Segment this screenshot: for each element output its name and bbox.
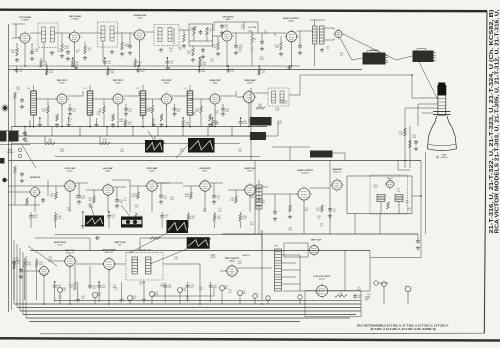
node left edge jack [2,178,6,182]
svg-text:56K: 56K [218,210,222,212]
resistor R18 [280,42,283,50]
svg-text:INTERLOCK: INTERLOCK [378,283,389,285]
svg-text:68K: 68K [202,71,206,73]
svg-text:47: 47 [69,121,71,123]
wire AGC bus [12,143,240,145]
resistor cathode [160,114,163,121]
svg-text:KINE: KINE [442,155,447,157]
wire video to CRT [289,75,412,95]
resistor horiz drive 2 [289,194,291,205]
wire drop [96,118,98,123]
svg-text:.01: .01 [141,118,144,120]
svg-text:1B3-GT: 1B3-GT [387,178,394,180]
wire left vertical bus [8,24,10,312]
peaking coil L30 [256,107,265,110]
node waveform photo W3 [167,220,189,233]
node tuner photo left [0,131,7,142]
svg-text:10K: 10K [228,292,232,294]
wire bottom scan bar [0,338,500,340]
wire W5 leader [148,131,154,140]
wire mid divider bus [9,160,422,162]
svg-text:.0047: .0047 [60,151,65,153]
svg-text:150: 150 [57,51,60,53]
capacitor C52 [353,294,357,299]
node pilot lamp [405,286,410,291]
svg-text:12BY7: 12BY7 [247,83,254,85]
svg-text:100K: 100K [237,263,242,265]
svg-text:10K: 10K [72,111,76,113]
svg-text:470K: 470K [242,218,247,220]
wire W3 leader [129,233,168,253]
svg-text:4.7K: 4.7K [42,111,47,113]
capacitor C16 [260,40,264,45]
wire speaker leads [324,27,334,29]
svg-text:39K: 39K [178,49,182,51]
svg-text:.047: .047 [190,287,194,289]
wire drop [136,68,140,73]
node vert blocking transformer [126,253,163,281]
svg-text:.0022: .0022 [64,48,69,50]
wire vert section verticals [261,230,263,300]
wire mid strip wires [35,237,90,239]
node right margin title inner [489,9,495,233]
wire B+ bus 1 [14,303,361,305]
resistor R14 [217,42,220,50]
svg-text:VERT BLK OSC: VERT BLK OSC [138,250,152,252]
svg-text:6AL5: 6AL5 [138,17,144,20]
wire drop [77,282,79,298]
node antenna input jack [3,106,7,110]
resistor grid [137,192,140,199]
node bus junctions [33,126,35,128]
capacitor C14 [234,44,238,49]
svg-text:47: 47 [115,290,117,292]
transformer T6 pix IF coil [87,91,93,115]
svg-text:.001: .001 [19,71,23,73]
wire W2 leader [121,205,130,217]
svg-text:VOLUME: VOLUME [248,27,257,29]
wire stage coupling [92,98,113,100]
svg-text:6CB6: 6CB6 [115,83,121,85]
wire drop [213,214,216,221]
svg-text:L21: L21 [83,88,86,90]
svg-text:.001: .001 [261,202,265,204]
node waveform photo W2 [121,217,143,228]
wire horiz out wiring [262,193,298,195]
wire bottom sheet edge [40,332,484,335]
wire vert section top bus [30,250,370,252]
wire drop [120,282,122,298]
svg-text:150: 150 [112,217,115,219]
wire drop [165,60,169,65]
wire row3 couplers [9,185,49,187]
svg-text:.01: .01 [108,63,111,65]
wire drop [75,65,77,68]
node vert out pin box [284,243,308,257]
svg-text:100K: 100K [198,289,203,291]
svg-text:220K: 220K [27,264,32,266]
wire drop [29,214,33,219]
wire drop [197,68,201,73]
node waveform photo W5 [145,140,164,153]
svg-text:27K: 27K [135,207,139,209]
wire drop [12,260,16,265]
svg-text:.001: .001 [128,111,132,113]
wire drop [14,68,18,73]
svg-text:1MEG: 1MEG [131,196,137,198]
wire B+ bus 4 [23,314,356,316]
svg-text:10K: 10K [316,210,320,212]
svg-text:6AQ5: 6AQ5 [229,260,235,263]
svg-text:220K: 220K [48,141,53,143]
svg-text:.0047: .0047 [213,287,218,289]
svg-text:NOISE INV: NOISE INV [30,177,41,179]
tube vert osc a [40,267,49,276]
svg-text:47: 47 [251,50,253,52]
wire drop [153,118,155,123]
svg-text:330: 330 [195,111,198,113]
resistor R4 [61,44,64,52]
svg-text:10K: 10K [186,124,190,126]
wire top sheet edge [0,10,487,12]
capacitor plate [257,198,261,203]
svg-text:.0047: .0047 [160,286,165,288]
resistor grid [190,192,193,199]
svg-text:220K: 220K [288,230,293,232]
svg-text:.0047: .0047 [399,134,404,136]
resistor cathode [112,114,115,121]
wire drop [23,260,26,267]
wire drop [124,120,127,127]
wire drop [167,65,169,68]
wire T1 out [55,32,70,34]
capacitor horiz drive 1 [274,194,276,210]
svg-text:100K: 100K [154,294,159,296]
transformer T2 sound IF [98,22,118,47]
svg-text:12K: 12K [88,200,92,202]
resistor R12 [192,48,195,56]
svg-text:4.7K: 4.7K [241,27,245,29]
svg-text:6AV6: 6AV6 [226,18,232,21]
wire drop [226,68,230,73]
node waveform photo W6 [188,138,215,153]
wire drop [103,60,107,65]
wire speaker photo leader 2 [343,34,412,60]
node ion trap photo [413,51,434,63]
svg-text:.001: .001 [35,51,39,53]
svg-text:220K: 220K [110,72,115,74]
svg-text:820: 820 [340,55,343,57]
svg-text:820: 820 [275,47,278,49]
svg-text:21-T-322, U, 21-T-323, U, 21-T: 21-T-322, U, 21-T-323, U, 21-T-324, U (C… [370,327,435,331]
svg-text:6AL5: 6AL5 [203,170,209,173]
wire drop [45,68,48,75]
wire T2 out [114,32,135,34]
svg-text:150: 150 [75,64,78,66]
svg-text:470K: 470K [182,290,187,292]
svg-text:100K: 100K [49,72,54,74]
node row2 bus drops [24,127,26,137]
capacitor plate [77,194,81,199]
svg-text:.0047: .0047 [119,121,124,123]
wire B+ bus 0 [55,300,361,302]
svg-text:150: 150 [224,27,227,29]
wire yoke drop [425,152,427,234]
svg-text:1K: 1K [17,263,20,265]
svg-text:6AU6: 6AU6 [105,170,111,173]
svg-text:150: 150 [90,113,93,115]
node ratio det box [189,24,213,46]
wire V1 wiring [12,37,20,39]
ground G1 [15,58,19,62]
wire HV lead [412,195,421,197]
svg-text:.0022: .0022 [62,290,67,292]
node fuse [382,282,387,287]
svg-text:.0047: .0047 [277,123,282,125]
svg-text:6CB6: 6CB6 [164,83,170,85]
svg-text:INT: INT [118,245,122,247]
capacitor C20 [220,24,224,29]
wire B+ bus 5 [26,317,350,319]
node waveform photo W4 [187,237,210,249]
svg-text:100K: 100K [185,196,190,198]
node selenium circles [253,294,257,298]
transformer T10 vert output [275,249,282,291]
transformer T1 sound IF [38,23,58,48]
capacitor plate [115,198,119,203]
svg-text:820: 820 [239,50,242,52]
svg-text:.022: .022 [405,202,409,204]
svg-text:56K: 56K [132,298,136,300]
wire power return [370,257,421,259]
node speaker photo [363,53,386,65]
wire photo ties [266,135,278,137]
svg-text:.0047: .0047 [140,71,145,73]
svg-text:220K: 220K [16,89,21,91]
svg-text:6.8K: 6.8K [191,218,196,220]
svg-text:.0047: .0047 [190,30,195,32]
svg-text:470K: 470K [97,114,102,116]
wire drop [163,284,167,289]
wire cage drops [379,214,381,235]
svg-text:39K: 39K [238,151,242,153]
svg-text:VERT OUT: VERT OUT [311,240,322,242]
svg-text:6CB6: 6CB6 [59,83,65,85]
wire drop [71,60,74,67]
transformer T3 disc trans [154,25,179,46]
wire CRT socket leads [412,97,438,99]
wire fine tuning diagonal [22,145,36,168]
node interlock [374,281,378,285]
wire drop [97,284,101,289]
svg-text:SPEAKER: SPEAKER [370,49,380,52]
svg-text:.001: .001 [185,298,189,300]
svg-text:1K: 1K [408,210,411,212]
node brightness photo [250,132,266,140]
wire mid divider bus 2 [55,156,260,158]
capacitor C2 [30,50,34,55]
svg-text:100K: 100K [139,284,144,286]
svg-text:27K: 27K [92,288,96,290]
svg-text:150: 150 [212,47,215,49]
capacitor bypass [68,107,72,112]
svg-text:47: 47 [88,50,90,52]
resistor screen [103,106,106,113]
wire vert out wiring [237,267,272,269]
capacitor plate [212,194,216,199]
wire stage coupling [36,98,57,100]
resistor vert lin [74,282,77,290]
svg-text:100K: 100K [243,123,248,125]
node power enclosure box [305,290,361,292]
svg-text:6W4-GT: 6W4-GT [333,172,342,174]
svg-text:12K: 12K [332,211,336,213]
wire IF row bus 1 [12,126,267,128]
svg-text:56K: 56K [169,50,173,52]
wire left vertical bus 2 [11,126,13,310]
node tuner blob [0,158,5,164]
node fine tuning caps [23,131,27,136]
svg-text:68K: 68K [119,202,123,204]
node electrolytic cans [58,288,63,293]
svg-text:.01: .01 [170,63,173,65]
resistor grid [235,196,238,203]
wire stage wiring [130,185,147,187]
svg-text:820: 820 [249,122,252,124]
node HV cage box [347,176,412,214]
wire drop [135,214,138,221]
wire drop [107,68,110,75]
capacitor C90 [416,239,420,244]
diode load [179,29,189,31]
capacitor C5 [66,50,70,55]
svg-text:1K: 1K [124,200,127,202]
svg-text:470K: 470K [202,64,207,66]
wire drop [258,68,261,75]
wire drop [82,212,84,224]
svg-text:FINE: FINE [8,150,13,152]
svg-text:IF 6AU6: IF 6AU6 [21,19,29,22]
wire T10 taps [282,254,301,256]
wire drop [54,214,57,221]
wire V5 wiring [275,32,286,34]
node AGC network [45,142,55,145]
node left column row2 parts [14,92,17,99]
svg-text:TUNING: TUNING [6,152,14,154]
svg-text:68K: 68K [120,151,124,153]
svg-text:330: 330 [231,71,234,73]
wire rect wiring [284,290,317,292]
tube V6 phono jack [335,30,342,37]
svg-text:1MEG: 1MEG [259,59,265,61]
wire drop [40,60,43,67]
wire mid column vertical [250,88,252,161]
svg-text:100K: 100K [89,207,94,209]
svg-text:.0047: .0047 [356,289,361,291]
svg-text:L22: L22 [136,88,139,90]
svg-text:6.8K: 6.8K [39,264,44,266]
wire B+ bus 3 [20,310,361,312]
resistor R8 [121,42,124,50]
capacitor C40 [88,284,92,289]
node focus photo [310,151,333,158]
resistor grid [55,192,58,199]
svg-text:L20: L20 [27,88,30,90]
wire drop [209,284,213,289]
transformer T9 HV [377,195,385,202]
svg-text:6CD6-G: 6CD6-G [301,173,309,175]
svg-text:5U4-G: 5U4-G [319,279,326,281]
node 4p5MC trap [268,88,289,106]
svg-text:21-T-316, U, 21-T-322, U, 21-T: 21-T-316, U, 21-T-322, U, 21-T-323, U, 2… [489,9,495,233]
capacitor bypass [124,107,128,112]
svg-text:220K: 220K [412,137,417,139]
wire drop [160,214,164,219]
svg-text:6.8K: 6.8K [242,293,247,295]
capacitor plate [159,194,163,199]
svg-text:4.7K: 4.7K [127,124,132,126]
svg-text:100K: 100K [373,187,378,189]
svg-text:6CS6: 6CS6 [67,171,73,173]
wire drop [186,284,190,289]
svg-text:2.2K: 2.2K [396,191,400,193]
svg-text:.0047: .0047 [174,259,179,261]
wire W1 leader [90,204,94,216]
transformer T4 audio output [313,26,318,44]
wire IF row bus 2 [12,135,267,137]
svg-text:T103: T103 [274,246,278,248]
wire sound row bottom bus 2 [9,65,301,67]
wire noise inv wiring [9,191,31,193]
svg-text:21ALP4: 21ALP4 [440,156,448,159]
svg-text:RCA VICTOR MODELS 21-T-303, U,: RCA VICTOR MODELS 21-T-303, U, 21-T-305,… [494,9,500,234]
wire drop [39,118,41,123]
tube V12 picture tube [438,83,445,86]
svg-text:.0047: .0047 [250,197,255,199]
wire tuner top edge [0,129,19,131]
svg-text:.001: .001 [215,113,219,115]
wire drop [239,214,242,221]
svg-text:.0047: .0047 [225,111,230,113]
wire video amp wiring [236,96,244,98]
resistor grid [93,196,96,203]
capacitor C12 [201,48,205,53]
node tuner circles [18,148,21,151]
svg-text:6SN7-GT: 6SN7-GT [66,253,76,255]
wire W4 leader [150,249,188,264]
wire focus leads [272,146,310,148]
wire sound row bottom bus [9,69,363,71]
wire drop [198,60,201,67]
capacitor bypass [173,107,177,112]
wire stage wiring [86,189,103,191]
svg-text:100K: 100K [33,217,38,219]
svg-text:27K: 27K [193,114,197,116]
svg-text:.022: .022 [261,72,265,74]
svg-text:820: 820 [76,52,79,54]
wire row4 wiring [20,270,40,272]
resistor R2 [16,48,19,56]
wire B+ left risers [13,240,15,304]
node contrast photo [250,117,272,126]
svg-text:56K: 56K [180,151,184,153]
svg-text:6AQ5: 6AQ5 [288,20,294,23]
wire drop [143,282,145,298]
wire mid horizontal 234 [55,234,262,236]
wire drop [182,120,185,127]
svg-text:27K: 27K [50,196,54,198]
svg-text:56K: 56K [49,259,53,261]
